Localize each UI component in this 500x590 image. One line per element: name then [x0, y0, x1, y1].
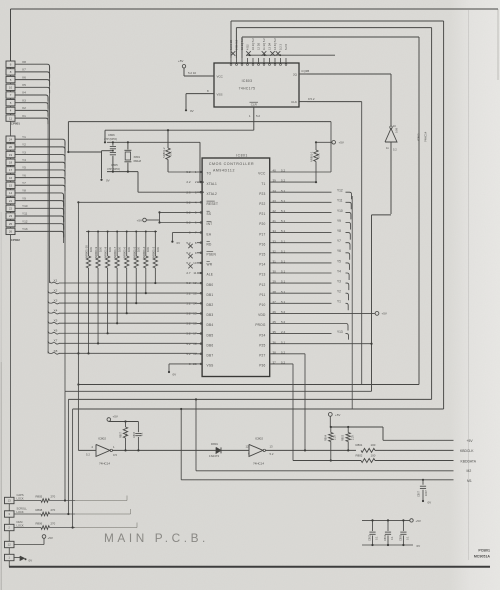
svg-text:Y2: Y2 — [22, 143, 26, 147]
svg-text:VCC: VCC — [258, 172, 266, 176]
svg-text:20: 20 — [9, 145, 13, 149]
svg-text:Y1: Y1 — [337, 300, 341, 304]
svg-text:13: 13 — [270, 445, 274, 449]
svg-text:P20: P20 — [259, 222, 265, 226]
svg-text:R803: R803 — [342, 434, 345, 441]
svg-text:P21: P21 — [259, 212, 265, 216]
svg-text:2.2K: 2.2K — [352, 435, 355, 440]
svg-text:P11: P11 — [259, 293, 265, 297]
svg-text:15 1Q 5.2: 15 1Q 5.2 — [240, 38, 244, 50]
svg-text:C803: C803 — [133, 431, 136, 438]
svg-text:M1: M1 — [467, 479, 472, 483]
svg-text:P14: P14 — [259, 263, 265, 267]
svg-text:Y6: Y6 — [337, 249, 341, 253]
svg-text:+5V: +5V — [382, 312, 387, 316]
svg-text:2.2K: 2.2K — [334, 435, 337, 440]
svg-text:14: 14 — [9, 191, 13, 195]
svg-text:X6: X6 — [22, 75, 26, 79]
svg-text:0.5: 0.5 — [113, 453, 117, 457]
svg-text:PCB01: PCB01 — [478, 549, 490, 553]
svg-text:C802: C802 — [369, 534, 372, 541]
svg-text:+5V: +5V — [416, 519, 421, 523]
svg-text:DB0: DB0 — [207, 283, 214, 287]
svg-text:0V: 0V — [173, 372, 177, 376]
svg-text:R808: R808 — [36, 508, 43, 512]
svg-text:P13: P13 — [259, 273, 265, 277]
svg-text:10K: 10K — [169, 151, 173, 156]
svg-text:CMOS CONTROLLER: CMOS CONTROLLER — [209, 162, 254, 166]
svg-text:TO: TO — [207, 172, 212, 176]
svg-text:AM94D112: AM94D112 — [213, 169, 235, 173]
svg-text:15: 15 — [9, 183, 13, 187]
svg-text:NR801-9: NR801-9 — [94, 246, 98, 258]
svg-text:19: 19 — [193, 352, 197, 356]
svg-text:X1: X1 — [22, 114, 26, 118]
svg-text:R807: R807 — [120, 431, 123, 438]
svg-text:74HC14: 74HC14 — [253, 462, 264, 466]
svg-text:Y7: Y7 — [337, 239, 341, 243]
svg-text:P25: P25 — [259, 343, 265, 347]
svg-text:0V: 0V — [428, 501, 432, 505]
svg-text:C805: C805 — [111, 163, 118, 167]
svg-text:DB3: DB3 — [207, 313, 214, 317]
svg-text:5.2: 5.2 — [270, 452, 274, 456]
svg-text:LOCK: LOCK — [17, 497, 24, 501]
svg-text:Y5: Y5 — [337, 259, 341, 263]
svg-text:T1: T1 — [261, 182, 265, 186]
svg-text:P16: P16 — [259, 242, 265, 246]
svg-text:CP802: CP802 — [11, 238, 21, 242]
svg-text:NR801-7: NR801-7 — [113, 246, 117, 258]
svg-text:EA: EA — [207, 232, 212, 236]
svg-text:KBDDATA: KBDDATA — [461, 459, 477, 463]
svg-text:10K: 10K — [125, 431, 128, 436]
svg-text:NUM: NUM — [17, 520, 23, 524]
svg-text:5.2 6: 5.2 6 — [284, 44, 288, 50]
svg-text:IC802: IC802 — [255, 437, 263, 441]
svg-text:X7: X7 — [22, 68, 26, 72]
svg-text:100: 100 — [371, 443, 376, 447]
svg-text:5.2: 5.2 — [186, 352, 191, 356]
svg-text:P12: P12 — [259, 283, 265, 287]
svg-text:2.7: 2.7 — [186, 271, 191, 275]
svg-text:270: 270 — [51, 508, 56, 512]
svg-text:+5V: +5V — [339, 141, 344, 145]
svg-text:NR801-8: NR801-8 — [104, 246, 108, 258]
svg-text:5.2 16: 5.2 16 — [188, 71, 196, 75]
svg-text:47P (NPO): 47P (NPO) — [104, 137, 117, 141]
svg-text:0V: 0V — [106, 179, 110, 183]
svg-text:P22: P22 — [259, 202, 265, 206]
svg-text:Y2: Y2 — [337, 290, 341, 294]
svg-text:11: 11 — [193, 271, 196, 275]
svg-text:13 D4: 13 D4 — [268, 42, 272, 50]
svg-text:+5V: +5V — [467, 439, 474, 443]
svg-text:DB5: DB5 — [207, 333, 214, 337]
svg-text:4 Q2B: 4 Q2B — [301, 69, 309, 73]
svg-text:12: 12 — [246, 445, 250, 449]
svg-text:11 3Q 5.2: 11 3Q 5.2 — [262, 38, 266, 50]
svg-text:10K: 10K — [127, 247, 131, 252]
svg-text:IC803: IC803 — [242, 79, 253, 83]
svg-text:9 5.2: 9 5.2 — [308, 97, 315, 101]
svg-text:Y10: Y10 — [22, 204, 28, 208]
svg-text:Y1: Y1 — [22, 135, 26, 139]
svg-text:C806: C806 — [108, 133, 115, 137]
svg-text:NR801-6: NR801-6 — [123, 246, 127, 258]
svg-text:10K: 10K — [156, 247, 160, 252]
svg-text:NR801-10: NR801-10 — [85, 245, 89, 258]
svg-text:MC9051A: MC9051A — [474, 555, 491, 559]
svg-text:Y11: Y11 — [337, 199, 343, 203]
svg-text:Y9: Y9 — [337, 219, 341, 223]
svg-text:25: 25 — [9, 222, 13, 226]
svg-text:NR801-2: NR801-2 — [162, 147, 166, 158]
svg-text:P17: P17 — [259, 232, 265, 236]
svg-text:R806: R806 — [36, 521, 43, 525]
svg-text:D801: D801 — [211, 442, 218, 446]
svg-text:INT: INT — [207, 222, 213, 226]
svg-text:10 2Q 5.2: 10 2Q 5.2 — [251, 38, 255, 50]
svg-text:R805: R805 — [36, 494, 43, 498]
svg-text:CP801: CP801 — [11, 122, 21, 126]
svg-text:Y4: Y4 — [22, 158, 26, 162]
svg-text:P27: P27 — [259, 354, 265, 358]
svg-text:Y8: Y8 — [22, 189, 26, 193]
svg-text:P36: P36 — [259, 364, 265, 368]
svg-text:0V: 0V — [190, 109, 194, 113]
svg-text:5.2: 5.2 — [256, 114, 260, 118]
svg-text:12: 12 — [8, 543, 12, 547]
svg-text:M2: M2 — [467, 469, 472, 473]
svg-text:17: 17 — [9, 168, 13, 172]
svg-text:270: 270 — [51, 521, 56, 525]
svg-text:18: 18 — [9, 160, 13, 164]
svg-text:VCC: VCC — [217, 74, 224, 78]
svg-text:P10: P10 — [259, 303, 265, 307]
svg-text:LOCK: LOCK — [17, 510, 24, 514]
svg-text:PROG: PROG — [255, 323, 266, 327]
svg-text:VDD: VDD — [258, 313, 266, 317]
svg-text:23: 23 — [9, 214, 13, 218]
svg-text:+5V: +5V — [113, 415, 118, 419]
svg-text:5.2: 5.2 — [186, 342, 191, 346]
svg-text:C804: C804 — [384, 534, 387, 541]
svg-text:24: 24 — [9, 137, 13, 141]
svg-text:NR801-4: NR801-4 — [142, 246, 146, 258]
svg-text:74HC14: 74HC14 — [99, 462, 110, 466]
svg-text:X5: X5 — [22, 83, 26, 87]
svg-text:ALE: ALE — [207, 273, 214, 277]
svg-text:XTAL1: XTAL1 — [207, 182, 218, 186]
svg-text:DB2: DB2 — [207, 303, 214, 307]
svg-text:4 D2: 4 D2 — [246, 44, 250, 50]
svg-text:14 4Q 5.2: 14 4Q 5.2 — [273, 38, 277, 50]
svg-text:X8: X8 — [22, 60, 26, 64]
svg-text:P24: P24 — [259, 333, 265, 337]
svg-text:Y3: Y3 — [337, 280, 341, 284]
svg-text:10: 10 — [393, 124, 396, 128]
svg-text:10K: 10K — [317, 153, 321, 158]
svg-text:Y9: Y9 — [22, 196, 26, 200]
svg-text:Y11: Y11 — [22, 212, 28, 216]
svg-text:CAPS: CAPS — [17, 493, 24, 497]
svg-text:Y8: Y8 — [337, 229, 341, 233]
svg-text:R802: R802 — [356, 453, 363, 457]
svg-text:+5V: +5V — [178, 59, 183, 63]
svg-text:IC801: IC801 — [236, 154, 248, 158]
svg-text:10K: 10K — [118, 247, 122, 252]
svg-text:CLK: CLK — [291, 100, 297, 104]
svg-text:0.1: 0.1 — [376, 536, 379, 540]
svg-text:270: 270 — [51, 494, 56, 498]
svg-text:WR: WR — [207, 263, 213, 267]
svg-text:KBDCLK: KBDCLK — [460, 449, 474, 453]
svg-text:Y13: Y13 — [337, 330, 343, 334]
svg-text:P15: P15 — [259, 253, 265, 257]
svg-text:0V: 0V — [417, 544, 421, 548]
svg-text:Y12: Y12 — [337, 189, 343, 193]
svg-text:10K: 10K — [108, 247, 112, 252]
svg-text:13: 13 — [8, 499, 12, 503]
svg-text:XTAL2: XTAL2 — [207, 192, 218, 196]
svg-text:6MHZ: 6MHZ — [134, 159, 142, 163]
svg-text:+5V: +5V — [137, 218, 142, 222]
svg-text:CLR: CLR — [251, 103, 258, 107]
svg-text:10K: 10K — [146, 247, 150, 252]
svg-text:21: 21 — [9, 199, 13, 203]
svg-text:100: 100 — [371, 453, 376, 457]
svg-text:5.2: 5.2 — [186, 332, 191, 336]
svg-text:SS: SS — [207, 212, 212, 216]
svg-text:26: 26 — [9, 230, 13, 234]
svg-text:Y10: Y10 — [337, 209, 343, 213]
svg-text:RD: RD — [207, 242, 213, 246]
svg-text:X2: X2 — [22, 106, 26, 110]
svg-text:P23: P23 — [259, 192, 265, 196]
svg-text:LOCK: LOCK — [17, 524, 24, 528]
svg-text:1S2473: 1S2473 — [209, 454, 219, 458]
svg-text:X3: X3 — [22, 98, 26, 102]
svg-text:5.2: 5.2 — [86, 453, 90, 457]
svg-text:IC802: IC802 — [98, 437, 106, 441]
svg-text:+5V: +5V — [335, 413, 340, 417]
svg-text:10K: 10K — [89, 247, 93, 252]
svg-text:17: 17 — [193, 332, 197, 336]
svg-text:MAIN P.C.B.: MAIN P.C.B. — [104, 531, 209, 545]
svg-text:DB1: DB1 — [207, 293, 214, 297]
svg-text:+5V: +5V — [48, 536, 53, 540]
svg-text:Y12: Y12 — [22, 219, 28, 223]
svg-text:VSS: VSS — [217, 92, 223, 96]
svg-text:Y5: Y5 — [22, 166, 26, 170]
svg-text:2Q: 2Q — [293, 72, 298, 76]
svg-text:Y6: Y6 — [22, 173, 26, 177]
svg-text:10: 10 — [9, 86, 13, 90]
svg-text:0.09: 0.09 — [395, 127, 399, 133]
svg-text:12 D3: 12 D3 — [257, 42, 261, 50]
svg-text:5.2 3: 5.2 3 — [279, 44, 283, 50]
svg-text:10: 10 — [193, 261, 197, 265]
svg-text:VSS: VSS — [207, 364, 214, 368]
svg-text:C807: C807 — [418, 490, 421, 497]
svg-text:19: 19 — [9, 153, 13, 157]
svg-text:11: 11 — [9, 116, 12, 120]
svg-text:NR801-5: NR801-5 — [132, 246, 136, 258]
svg-text:C808: C808 — [399, 534, 402, 541]
svg-text:74HC14: 74HC14 — [424, 131, 428, 142]
svg-text:0.1: 0.1 — [406, 536, 409, 540]
svg-text:R801: R801 — [356, 443, 363, 447]
svg-text:5.2: 5.2 — [393, 148, 397, 152]
svg-text:Y4: Y4 — [337, 269, 341, 273]
svg-text:74HC175: 74HC175 — [239, 87, 256, 91]
svg-text:10K: 10K — [137, 247, 141, 252]
svg-text:DB7: DB7 — [207, 354, 214, 358]
svg-text:47P (NPO): 47P (NPO) — [107, 167, 120, 171]
svg-text:5.2 5 1D: 5.2 5 1D — [229, 40, 233, 50]
svg-text:X4: X4 — [22, 91, 26, 95]
svg-text:RESET: RESET — [207, 202, 219, 206]
svg-text:DB6: DB6 — [207, 343, 214, 347]
svg-text:100P: 100P — [425, 490, 428, 496]
svg-text:IC802: IC802 — [417, 133, 421, 141]
svg-text:16: 16 — [9, 176, 13, 180]
svg-text:R804: R804 — [324, 434, 327, 441]
svg-text:Y7: Y7 — [22, 181, 26, 185]
svg-text:NR801-3: NR801-3 — [151, 246, 155, 258]
svg-text:2 D1 5.2: 2 D1 5.2 — [235, 39, 239, 50]
svg-text:0.1: 0.1 — [141, 432, 144, 436]
svg-text:SCROLL: SCROLL — [17, 507, 28, 511]
svg-text:22: 22 — [9, 207, 13, 211]
svg-text:2.2: 2.2 — [186, 180, 191, 184]
svg-text:NR801-1: NR801-1 — [310, 151, 314, 162]
svg-text:PSEN: PSEN — [207, 253, 217, 257]
svg-text:0.1: 0.1 — [391, 536, 394, 540]
svg-text:10K: 10K — [98, 247, 102, 252]
svg-text:2.3: 2.3 — [186, 190, 191, 194]
svg-text:0V: 0V — [29, 558, 33, 562]
svg-text:Y3: Y3 — [22, 150, 26, 154]
svg-text:DB4: DB4 — [207, 323, 214, 327]
svg-text:0V: 0V — [177, 241, 181, 245]
svg-text:18: 18 — [193, 342, 197, 346]
svg-text:Y13: Y13 — [22, 227, 28, 231]
